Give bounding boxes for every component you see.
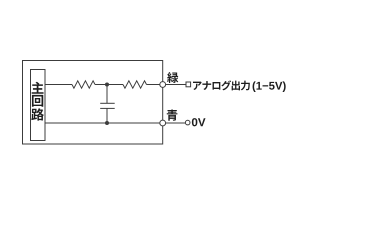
wire: blue terminal to 0V pad xyxy=(166,122,186,124)
wire top: box to R1 xyxy=(45,84,72,86)
0V pad circle xyxy=(185,120,190,125)
junction node B xyxy=(105,121,109,125)
terminal circle blue xyxy=(160,120,166,126)
label (1-5V) xyxy=(253,81,286,92)
resistor R1 xyxy=(72,81,95,88)
label blue 青 xyxy=(167,109,178,120)
wire top: R1 to R2 xyxy=(95,84,123,86)
wire bottom: box to terminal xyxy=(45,122,163,124)
main circuit block 主回路 xyxy=(31,70,46,141)
junction node A xyxy=(105,83,109,87)
output pad square xyxy=(186,82,191,87)
resistor R2 xyxy=(123,81,147,88)
label アナログ出力 (analog output) xyxy=(193,80,250,90)
label green 緑 xyxy=(167,72,178,83)
wire: green terminal to output pad xyxy=(166,84,186,86)
outer enclosure box xyxy=(23,61,163,145)
label 0V xyxy=(192,118,206,126)
terminal circle green xyxy=(160,82,166,88)
capacitor C1 xyxy=(100,85,115,124)
wire top: R2 to terminal xyxy=(147,84,163,86)
